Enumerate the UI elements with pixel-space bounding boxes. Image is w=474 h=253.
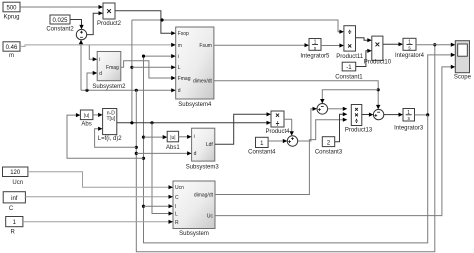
- svg-text:Scope: Scope: [454, 75, 472, 81]
- junction dimex/dt branch: [377, 88, 380, 91]
- svg-text:Constant4: Constant4: [248, 150, 276, 156]
- wire Product2 out to Subsystem4 Fsop input: [115, 11, 176, 36]
- wire R (1) to Subsystem R input: [23, 220, 173, 224]
- svg-text:i: i: [194, 134, 195, 140]
- svg-text:d: d: [194, 151, 197, 157]
- svg-text:500: 500: [6, 6, 17, 12]
- wire Subsystem4 Fsum out to Integrator5: [214, 43, 309, 47]
- integrator Integrator5: [300, 39, 330, 60]
- constant Constant4 (1): [248, 137, 276, 155]
- svg-text:dimex/dt: dimex/dt: [193, 79, 213, 85]
- svg-text:Integrator4: Integrator4: [395, 53, 425, 59]
- product Product10: [364, 36, 392, 66]
- svg-text:Uc: Uc: [207, 214, 214, 220]
- integrator Integrator4: [395, 38, 425, 59]
- constant C (inf): [3, 192, 25, 212]
- wire Integrator4 out to Scope in1: [416, 43, 455, 47]
- abs block Abs1: [166, 131, 180, 151]
- subsystem Subsystem3: [186, 128, 220, 170]
- junction d line to Subsystem2 d: [85, 89, 88, 92]
- wire i net top branch into Subsystem4 i input: [144, 54, 176, 58]
- sum junction S1 (0.025 minus d): [76, 29, 86, 39]
- wire Kprug to Product2 in1: [20, 5, 103, 9]
- svg-text:Ucn: Ucn: [12, 180, 23, 186]
- svg-text:Ucn: Ucn: [175, 185, 184, 191]
- arrow i net into Scope in2: [451, 53, 456, 57]
- junction i net to Abs1: [142, 136, 145, 139]
- svg-text:T[u]: T[u]: [106, 116, 115, 122]
- junction i net top: [142, 55, 145, 58]
- wire Product11 out to Product10 in1: [356, 38, 372, 43]
- svg-text:Constant1: Constant1: [335, 74, 363, 80]
- sum junction S7: [373, 109, 383, 119]
- wire dimex/dt branch to sum S6 top: [320, 90, 378, 104]
- svg-text:Product11: Product11: [336, 54, 364, 60]
- wire i branch to Abs1 input: [144, 135, 168, 139]
- product Product11: [336, 26, 364, 61]
- svg-text:inf: inf: [11, 196, 18, 202]
- sum junction S5: [287, 136, 297, 146]
- subsystem Subsystem (RLC): [173, 181, 215, 237]
- svg-text:L: L: [175, 212, 178, 218]
- wire L net top run to Product11 in1: [132, 20, 344, 34]
- junction d net on d line: [135, 89, 138, 92]
- svg-text:I: I: [175, 204, 176, 210]
- svg-text:L: L: [178, 65, 181, 71]
- svg-text:Constant2: Constant2: [46, 27, 74, 33]
- svg-text:C: C: [175, 195, 179, 201]
- subsystem Subsystem2: [92, 52, 126, 90]
- wire d feedback rising into sum S1 bottom (minus input): [79, 40, 83, 91]
- integrator Integrator3: [394, 109, 424, 132]
- product Product13: [345, 105, 373, 134]
- wire Subsystem Uc out to Scope in3: [215, 65, 455, 216]
- svg-text:Subsystem3: Subsystem3: [186, 164, 220, 170]
- svg-text:|u|: |u|: [170, 135, 175, 141]
- svg-text:Integrator3: Integrator3: [394, 126, 424, 132]
- svg-text:Constant3: Constant3: [315, 150, 343, 156]
- svg-text:Product10: Product10: [364, 60, 392, 66]
- svg-text:m: m: [178, 43, 182, 49]
- junction L value to Subsystem L: [150, 121, 153, 124]
- svg-text:Product2: Product2: [97, 21, 122, 27]
- wire Abs out to lookup table in1: [93, 113, 103, 117]
- wire Subsystem2 Fmag out to Subsystem4 Fmag input: [121, 61, 176, 80]
- svg-text:d: d: [178, 88, 181, 94]
- abs block Abs: [80, 110, 93, 128]
- junction L value to vertical x=131.9: [130, 121, 133, 124]
- wire Constant4 to sum S5 left: [268, 139, 287, 143]
- wire sum S1 to Product2 in2: [87, 11, 103, 34]
- wire Subsystem4 dimex/dt out to sum S7 top: [214, 81, 381, 110]
- svg-text:Product13: Product13: [345, 128, 373, 134]
- wire Abs1 out to Subsystem3 i input: [179, 135, 192, 139]
- junction d net at Integrator4 output line: [433, 43, 436, 46]
- wire sum S6 out to Product13 in1: [328, 107, 348, 111]
- svg-text:Product4: Product4: [265, 129, 290, 135]
- subsystem Subsystem4: [176, 27, 214, 108]
- junction where Product2 branch crosses top run: [160, 18, 163, 21]
- svg-text:Subsystem2: Subsystem2: [92, 84, 126, 90]
- svg-text:Abs: Abs: [81, 122, 91, 128]
- wire Product10 out to Integrator4: [383, 42, 403, 46]
- wire branch to Subsystem4 L input: [132, 65, 176, 69]
- junction i net to Subsystem I input: [142, 205, 145, 208]
- svg-text:Integrator5: Integrator5: [300, 54, 330, 60]
- product Product2: [97, 3, 122, 27]
- wire lookup table out (L) to Product4 in2: [117, 121, 271, 125]
- svg-text:R: R: [175, 220, 179, 226]
- svg-text:C: C: [9, 206, 14, 212]
- constant Kprug (500): [3, 2, 20, 21]
- lookup table L=f(i, d)2: [98, 109, 123, 143]
- junction d net to Subsystem3 branch: [135, 152, 138, 155]
- svg-text:i: i: [99, 57, 100, 63]
- svg-text:Kprug: Kprug: [3, 15, 19, 21]
- constant R (1): [6, 217, 23, 236]
- scope Scope: [454, 41, 472, 81]
- svg-text:Fmag: Fmag: [178, 76, 191, 82]
- wire Integrator5 out to Product11 in2: [321, 43, 344, 47]
- wire Subsystem dimag/dt out up to Product13 in3: [215, 118, 347, 195]
- wire L branch down to Subsystem L input: [152, 123, 173, 216]
- wire sum S5 out up to sum S6 left: [298, 107, 317, 141]
- wire Ucn (120) to Subsystem Ucn input: [28, 172, 173, 190]
- constant Ucn (120): [3, 167, 28, 186]
- svg-text:Fsop: Fsop: [178, 31, 189, 37]
- junction Integrator3 output: [426, 113, 429, 116]
- wire d net vertical and bottom feedback from Integrator4: [136, 45, 435, 252]
- wire d line to Subsystem4 d input: [81, 88, 176, 92]
- svg-text:Fmag: Fmag: [106, 65, 119, 71]
- constant Constant1 (-1): [335, 62, 363, 80]
- svg-text:0.46: 0.46: [6, 45, 18, 51]
- wire m to Subsystem4 m input: [20, 43, 176, 47]
- wire Product4 out to sum S5 top: [284, 119, 294, 136]
- wire d branch to lookup table in2: [95, 127, 137, 148]
- product Product4: [265, 111, 290, 135]
- wire Constant3 to Product13 in2: [335, 112, 348, 142]
- svg-text:R: R: [11, 230, 16, 236]
- wire i net down and left to vertical x=143.5: [144, 56, 428, 243]
- sum junction S6: [317, 104, 328, 115]
- wire d branch to Subsystem2 d input: [87, 71, 97, 90]
- wire i branch to Subsystem I input: [144, 204, 174, 208]
- constant Constant2 (0.025): [46, 15, 74, 33]
- junction L net at Subsystem4 L branch: [130, 66, 133, 69]
- svg-text:d: d: [99, 71, 102, 77]
- wire d branch to Subsystem3 d input: [136, 151, 191, 155]
- junction i net to Abs branch: [142, 157, 145, 160]
- svg-text:L=f(i, d)2: L=f(i, d)2: [98, 136, 123, 142]
- wire i branch left and up to Abs input: [67, 113, 144, 158]
- svg-text:i: i: [178, 54, 179, 60]
- wire Product13 out to sum S7 left: [362, 113, 374, 117]
- svg-text:|u|: |u|: [84, 113, 89, 119]
- wire m line branch to Subsystem2 i input: [89, 45, 97, 61]
- wire C (inf) to Subsystem C input: [25, 195, 173, 199]
- wire sum S7 out to Integrator3: [384, 113, 403, 117]
- svg-text:Ldf: Ldf: [206, 142, 214, 148]
- wire Constant2 to sum S1 top: [70, 20, 84, 30]
- junction d net to lookup branch: [135, 146, 138, 149]
- wire L net vertical x=131.9: [131, 20, 133, 123]
- svg-text:-1: -1: [346, 65, 352, 71]
- svg-text:dimag/dt: dimag/dt: [194, 193, 214, 199]
- constant m (0.46): [3, 42, 20, 59]
- wire i net vertical with bottom feedback from Integrator3 and scope tap: [415, 55, 452, 115]
- svg-text:Fsum: Fsum: [199, 43, 212, 49]
- svg-text:120: 120: [10, 170, 21, 176]
- svg-text:Subsystem4: Subsystem4: [178, 102, 212, 108]
- wire Subsystem3 Ldf out to Product4 in1: [215, 112, 271, 144]
- svg-text:m: m: [9, 53, 14, 59]
- constant Constant3 (2): [315, 137, 343, 156]
- svg-text:Subsystem: Subsystem: [179, 231, 209, 237]
- svg-text:Abs1: Abs1: [166, 145, 180, 151]
- svg-text:0.025: 0.025: [52, 18, 68, 24]
- wire Constant1 to Product10 in2: [356, 49, 372, 67]
